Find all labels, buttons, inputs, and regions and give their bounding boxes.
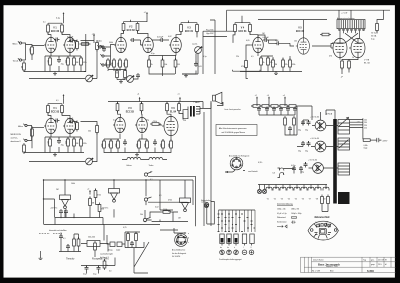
plug mains xyxy=(377,138,382,142)
wire anodes V3 xyxy=(165,32,198,41)
svg-text:ha: ha xyxy=(227,247,229,249)
jack J1 xyxy=(18,41,24,44)
wire pedal xyxy=(81,258,115,274)
svg-text:2,2M: 2,2M xyxy=(30,48,32,52)
wire radio xyxy=(82,34,90,72)
resistor R24 xyxy=(289,58,296,69)
wire cathode bus ch2 xyxy=(24,139,84,153)
switch S2 xyxy=(144,176,195,226)
tube V2a xyxy=(114,37,126,52)
resistor R64 xyxy=(135,232,138,243)
wire osc right xyxy=(81,225,108,258)
wire bus links mid xyxy=(103,180,193,225)
capacitor C7 xyxy=(263,37,270,42)
capacitor C24 xyxy=(66,244,70,250)
wire tap arrow W2 xyxy=(339,140,349,149)
svg-text:Ug=-38V: Ug=-38V xyxy=(206,33,214,35)
wire row bus xyxy=(108,69,126,74)
svg-text:0,05μF: 0,05μF xyxy=(67,118,74,120)
capacitor C31 xyxy=(292,166,296,172)
resistor R15a plate V3 xyxy=(180,23,183,34)
capacitor C9 xyxy=(54,119,60,123)
resistor R45 xyxy=(145,139,149,150)
svg-text:0,1μF = 0,1μ: 0,1μF = 0,1μ xyxy=(277,213,287,215)
svg-text:220k: 220k xyxy=(169,143,171,147)
svg-text:0,5μ: 0,5μ xyxy=(151,53,155,55)
resistor R3a plate xyxy=(47,23,50,34)
resistor R15b plate V3 xyxy=(196,23,199,34)
resistor R8 xyxy=(73,56,79,67)
wire main bus mid xyxy=(44,112,212,226)
svg-text:träge: träge xyxy=(364,147,368,150)
svg-text:Druckknopfschalteraggregat: Druckknopfschalteraggregat xyxy=(219,258,242,261)
tube V7 xyxy=(331,38,347,57)
node +5 ch2 xyxy=(177,94,181,102)
resistor R19a plate V4 xyxy=(234,23,237,34)
svg-text:Tag: Tag xyxy=(363,259,366,261)
resistor R53 xyxy=(284,116,287,127)
capacitor C28 electrolytic xyxy=(298,141,305,153)
resistor R9 xyxy=(80,56,87,67)
speaker LS1 xyxy=(213,92,222,104)
svg-text:500+500: 500+500 xyxy=(88,237,95,239)
svg-text:Klang: Klang xyxy=(108,250,112,252)
svg-text:250: 250 xyxy=(183,120,186,122)
svg-text:+ Gl. Va 30: + Gl. Va 30 xyxy=(310,138,319,140)
resistor R39 470k xyxy=(150,121,161,125)
svg-text:MIKROFON: MIKROFON xyxy=(11,134,22,136)
transformer T1 output xyxy=(337,20,365,29)
svg-text:100k: 100k xyxy=(71,183,75,185)
resistor R20 xyxy=(260,56,265,67)
resistor R35 xyxy=(66,137,70,148)
switch S3 xyxy=(143,210,151,222)
resistor R16 xyxy=(148,58,153,69)
capacitor C29 electrolytic xyxy=(305,141,311,153)
svg-text:gepr.: gepr. xyxy=(371,264,375,266)
resistor R65 xyxy=(321,195,324,206)
wire heater bus xyxy=(258,185,327,190)
svg-text:220k: 220k xyxy=(116,143,118,147)
wire plate bus V2 xyxy=(124,20,138,22)
resistor R55 xyxy=(89,197,95,208)
wire tone net xyxy=(125,232,144,248)
resistor R29 xyxy=(31,127,34,138)
capacitor C10 xyxy=(67,118,75,124)
wire trem bus1 xyxy=(55,189,103,225)
resistor R68 xyxy=(80,43,91,46)
ground G6 xyxy=(135,153,139,156)
resistor R28 xyxy=(376,22,379,33)
node +2 spk xyxy=(222,102,224,105)
capacitor C3 xyxy=(57,58,64,66)
wire HT bus top xyxy=(227,10,390,31)
svg-text:470: 470 xyxy=(329,56,332,58)
winding W3 xyxy=(338,163,350,175)
svg-text:50μ: 50μ xyxy=(301,172,304,174)
box osc unit xyxy=(87,237,100,247)
svg-text:Bass Jazzsuperb: Bass Jazzsuperb xyxy=(318,263,340,267)
svg-text:Höhen: Höhen xyxy=(127,165,132,167)
resistor R51 xyxy=(278,105,289,108)
resistor R42 xyxy=(109,139,113,150)
svg-text:47k: 47k xyxy=(86,42,89,44)
resistor R25 screen xyxy=(320,33,331,36)
svg-text:7 VA AT: 7 VA AT xyxy=(193,101,200,104)
legend row5 arrow xyxy=(277,225,287,228)
trimmer TR1 xyxy=(110,242,115,247)
svg-text:240: 240 xyxy=(364,119,367,121)
svg-text:+ 2 L.W: + 2 L.W xyxy=(341,13,348,15)
svg-text:1MΩ = 1M: 1MΩ = 1M xyxy=(291,208,299,210)
wire feedback bracket xyxy=(233,70,261,79)
svg-text:0,5μ: 0,5μ xyxy=(93,274,96,276)
svg-text:6,3: 6,3 xyxy=(273,173,276,175)
transformer T2 7VA xyxy=(188,106,200,117)
wire osc xyxy=(59,233,81,252)
svg-text:für Kanal II: für Kanal II xyxy=(100,257,109,259)
svg-text:V 7/8: V 7/8 xyxy=(364,59,370,61)
svg-text:Anschlußbuchse: Anschlußbuchse xyxy=(172,249,185,252)
socket B2 DIN xyxy=(175,234,188,247)
winding W2 xyxy=(338,138,350,150)
capacitor C4 xyxy=(130,38,136,42)
legend row3 xyxy=(277,216,297,219)
wire psu bottom xyxy=(322,206,328,212)
resistor R66 xyxy=(327,195,330,206)
wire rect links xyxy=(309,126,339,169)
resistor R40a plate xyxy=(166,102,169,113)
rectifier GL3 xyxy=(308,159,323,173)
wire speaker drop xyxy=(211,101,223,145)
wire anodes V2 xyxy=(121,31,148,38)
connector LS plate xyxy=(308,221,338,240)
svg-text:470k: 470k xyxy=(112,62,114,66)
resistor R44 xyxy=(137,139,141,150)
svg-text:0,1μ: 0,1μ xyxy=(371,39,375,41)
tube V2b xyxy=(141,37,153,52)
legend row2 xyxy=(277,213,302,215)
capacitor C27 electrolytic xyxy=(305,120,311,132)
svg-text:abnehmer II: abnehmer II xyxy=(11,140,22,143)
svg-text:100k: 100k xyxy=(66,141,68,145)
svg-text:500k: 500k xyxy=(109,42,113,44)
svg-text:ECC 83: ECC 83 xyxy=(51,111,60,113)
svg-text:+ Gl. Va 30: + Gl. Va 30 xyxy=(310,117,319,119)
svg-text:0,02: 0,02 xyxy=(155,207,159,209)
rectifier GL2 xyxy=(310,138,326,152)
svg-text:mit 20 kΩ/Volt gegen Masse: mit 20 kΩ/Volt gegen Masse xyxy=(222,131,246,134)
svg-text:Radio: Radio xyxy=(97,41,103,43)
tube V8 xyxy=(349,38,365,57)
svg-text:220k: 220k xyxy=(145,143,147,147)
resistor R62 100k xyxy=(161,209,172,213)
svg-text:Nr. 504/54: Nr. 504/54 xyxy=(172,256,180,258)
resistor R30 xyxy=(23,143,26,154)
heater H9 xyxy=(323,187,329,200)
svg-text:220k: 220k xyxy=(137,143,139,147)
svg-text:50μ: 50μ xyxy=(305,130,308,132)
wire anodes out xyxy=(340,31,360,39)
wire R2 bottom xyxy=(23,71,25,73)
svg-text:0,1μ: 0,1μ xyxy=(203,56,207,58)
knob K3 xyxy=(234,250,239,255)
svg-text:für das Echogerät: für das Echogerät xyxy=(172,252,187,255)
wire plate bus ch2 xyxy=(48,99,64,104)
ground G1 xyxy=(53,72,57,75)
capacitor C14 xyxy=(257,107,261,113)
junction dot3 xyxy=(144,221,145,222)
svg-text:4 HD A: 4 HD A xyxy=(326,113,333,116)
heater H1 xyxy=(266,187,272,200)
wire psu top xyxy=(312,106,335,120)
tube V1a xyxy=(44,37,56,52)
svg-text:0,5μ: 0,5μ xyxy=(83,274,86,276)
capacitor C30 electrolytic xyxy=(301,162,308,174)
resistor R69 xyxy=(116,69,119,80)
junction dots bus xyxy=(43,179,147,180)
wire diag xyxy=(107,235,149,273)
wire V5 anode xyxy=(303,20,305,38)
svg-text:50μ: 50μ xyxy=(298,130,301,132)
svg-text:0,05: 0,05 xyxy=(198,66,202,68)
wire cathode bus xyxy=(24,58,84,72)
wire cathode row top xyxy=(45,53,81,58)
capacitor C32 xyxy=(299,166,303,172)
resistor R54 xyxy=(293,116,296,127)
resistor R41 xyxy=(102,139,106,150)
terminal labels mains xyxy=(350,118,367,139)
wire mains loop xyxy=(207,202,215,225)
svg-text:+20 NTC: +20 NTC xyxy=(50,208,58,210)
svg-text:470k: 470k xyxy=(83,62,87,64)
capacitor C36 xyxy=(97,266,101,272)
node +3 rail xyxy=(267,95,270,101)
wire link left xyxy=(203,31,234,36)
svg-text:0,5: 0,5 xyxy=(251,56,254,58)
node +2 supply xyxy=(56,12,64,19)
lamp LA1 xyxy=(201,202,209,208)
capacitor C8 5n xyxy=(275,40,281,45)
resistor R40b plate xyxy=(178,102,181,113)
trimmer TR2 xyxy=(117,242,122,247)
wire bus ch2b xyxy=(108,102,203,109)
svg-text:0,1μ: 0,1μ xyxy=(56,18,60,20)
capacitor C12 xyxy=(123,140,127,146)
svg-text:470k: 470k xyxy=(124,62,126,66)
jack J7 xyxy=(23,139,29,142)
svg-text:c: c xyxy=(188,242,189,244)
arrow pin b xyxy=(178,237,189,240)
svg-text:470k: 470k xyxy=(118,62,120,66)
jack J4 xyxy=(100,54,106,57)
wire to pot II xyxy=(29,133,97,162)
svg-text:100pF = 100p: 100pF = 100p xyxy=(291,213,302,215)
transformer T3 core xyxy=(333,119,337,204)
svg-text:220: 220 xyxy=(364,125,367,127)
capacitor C18 xyxy=(286,107,290,113)
svg-text:20k: 20k xyxy=(140,214,143,216)
svg-text:Kondensator: Kondensator xyxy=(277,221,287,224)
svg-text:29.9.: 29.9. xyxy=(378,264,382,266)
ground G3 xyxy=(184,74,188,77)
capacitor C33 xyxy=(194,62,202,69)
resistor R67 xyxy=(241,59,247,70)
svg-text:230: 230 xyxy=(364,122,367,124)
svg-text:0,05μF: 0,05μF xyxy=(263,37,270,39)
winding W4 xyxy=(338,192,350,204)
svg-text:ECC 83: ECC 83 xyxy=(126,111,135,113)
capacitor C17 xyxy=(279,107,283,113)
svg-text:210: 210 xyxy=(364,128,367,130)
node +2c xyxy=(63,94,65,99)
tube V3a xyxy=(169,37,181,52)
resistor R63 xyxy=(127,232,130,243)
jack J3 xyxy=(98,44,106,48)
svg-text:10kΩ = 10k: 10kΩ = 10k xyxy=(277,208,286,210)
wire jacks xyxy=(106,45,115,66)
heater H8 xyxy=(315,187,321,200)
resistor R17 xyxy=(161,58,167,69)
resistor R21 xyxy=(267,56,273,67)
ground G7 xyxy=(39,251,43,259)
resistor R3b plate xyxy=(61,23,64,34)
svg-text:470k: 470k xyxy=(168,200,172,202)
svg-text:220V~: 220V~ xyxy=(383,140,389,142)
resistor R46 xyxy=(161,139,165,150)
wire arrows feed xyxy=(160,210,178,242)
switch body SW2 xyxy=(227,234,231,244)
wire coupling V2 xyxy=(136,40,162,45)
svg-text:ECC 83: ECC 83 xyxy=(51,31,60,33)
wire grid drive xyxy=(312,44,349,49)
tube V1'a xyxy=(44,118,56,133)
svg-text:100k: 100k xyxy=(66,60,68,64)
resistor R56 xyxy=(94,189,101,200)
socket B1 xyxy=(230,157,243,170)
label stems xyxy=(220,246,252,249)
knob K5 xyxy=(249,250,254,255)
svg-text:EL 84: EL 84 xyxy=(170,110,177,113)
wire PI left drop xyxy=(203,20,215,74)
wire rail drops xyxy=(257,101,285,106)
svg-text:47k: 47k xyxy=(270,62,273,64)
wire plate bus V3 xyxy=(181,21,197,23)
resistor R5 47k xyxy=(96,41,103,52)
junction dot2 xyxy=(60,217,61,218)
switch S4 mains xyxy=(201,199,211,207)
svg-text:V1: V1 xyxy=(267,199,269,201)
node +4 ch2 xyxy=(137,94,141,102)
wire pot P6 drop xyxy=(182,53,198,74)
wire anode V1b xyxy=(62,32,70,37)
wire T2 primary xyxy=(183,110,188,119)
wire anodes ch2 xyxy=(48,113,70,119)
wire cathodes out xyxy=(340,58,358,74)
switch S1 xyxy=(144,171,152,176)
wire cap grounds xyxy=(259,112,295,115)
heater H7 xyxy=(308,187,314,200)
junction dot1 xyxy=(73,217,74,218)
wire anode V1a xyxy=(48,32,51,37)
svg-text:1,5k: 1,5k xyxy=(48,141,50,144)
svg-text:10k: 10k xyxy=(294,41,297,43)
knob K4 xyxy=(242,250,247,255)
wire R67 xyxy=(240,45,302,72)
capacitor C5 0.05u xyxy=(157,36,165,42)
pot P5 tone xyxy=(149,157,163,166)
resistor R59 xyxy=(77,237,80,248)
resistor R60 xyxy=(94,241,97,252)
resistor R34 xyxy=(48,137,52,148)
switch body SW3 xyxy=(234,234,238,244)
tube V6 xyxy=(162,116,178,135)
resistor R47 xyxy=(169,139,173,150)
resistor R6 xyxy=(48,56,52,67)
node +2b xyxy=(144,12,148,17)
lamp LA2 pilot xyxy=(257,189,261,193)
svg-text:470k: 470k xyxy=(83,143,87,145)
resistor R48 xyxy=(251,105,262,108)
tube V5 xyxy=(296,38,310,54)
svg-text:0,25: 0,25 xyxy=(123,227,127,229)
switch body SW5 xyxy=(250,234,254,244)
svg-text:Datum Name: Datum Name xyxy=(313,259,324,262)
wire trem bus2 xyxy=(44,218,104,225)
svg-text:V4: V4 xyxy=(288,199,290,201)
resistor R50 xyxy=(269,105,280,108)
svg-text:b: b xyxy=(188,238,189,240)
svg-text:25.9.59: 25.9.59 xyxy=(378,259,384,261)
resistor R10 xyxy=(106,58,110,69)
wire lower psu link xyxy=(285,106,297,135)
ground G5 xyxy=(53,153,57,156)
resistor R19b plate V4 xyxy=(249,23,252,34)
resistor R38b plate xyxy=(140,102,143,113)
capacitor C22 xyxy=(64,209,68,215)
svg-text:V7: V7 xyxy=(309,199,311,201)
capacitor C11 xyxy=(57,139,64,147)
capacitor C35 xyxy=(85,266,89,272)
wire grid cross xyxy=(332,33,363,43)
capacitor C23 xyxy=(59,234,66,240)
svg-text:220k: 220k xyxy=(161,143,163,147)
svg-text:0,1: 0,1 xyxy=(63,238,66,240)
resistor R36 xyxy=(73,137,79,148)
capacitor C19 xyxy=(293,107,297,113)
label legend header xyxy=(277,203,293,205)
pot P1 volume xyxy=(86,75,97,82)
svg-text:470k: 470k xyxy=(97,195,101,197)
resistor R58 xyxy=(73,237,76,248)
svg-text:Tiefen: Tiefen xyxy=(149,165,154,167)
winding W5 heater xyxy=(273,168,284,178)
pot P4 tone xyxy=(127,157,141,166)
switch body SW1 xyxy=(220,234,224,244)
wire V3 cathodes xyxy=(149,53,196,76)
svg-text:Blatt: Blatt xyxy=(330,269,334,272)
svg-text:Lautst.: Lautst. xyxy=(192,43,198,46)
wire R28 xyxy=(377,20,384,34)
heater H3 xyxy=(280,187,286,200)
capacitor C20 xyxy=(288,126,292,132)
svg-text:22k: 22k xyxy=(285,64,288,66)
svg-text:von Kontakt: von Kontakt xyxy=(248,170,258,173)
tube V3'b xyxy=(135,117,147,132)
svg-text:30 mA: 30 mA xyxy=(371,35,377,38)
pot P3 xyxy=(86,158,97,165)
wire socket arrow xyxy=(225,170,245,172)
